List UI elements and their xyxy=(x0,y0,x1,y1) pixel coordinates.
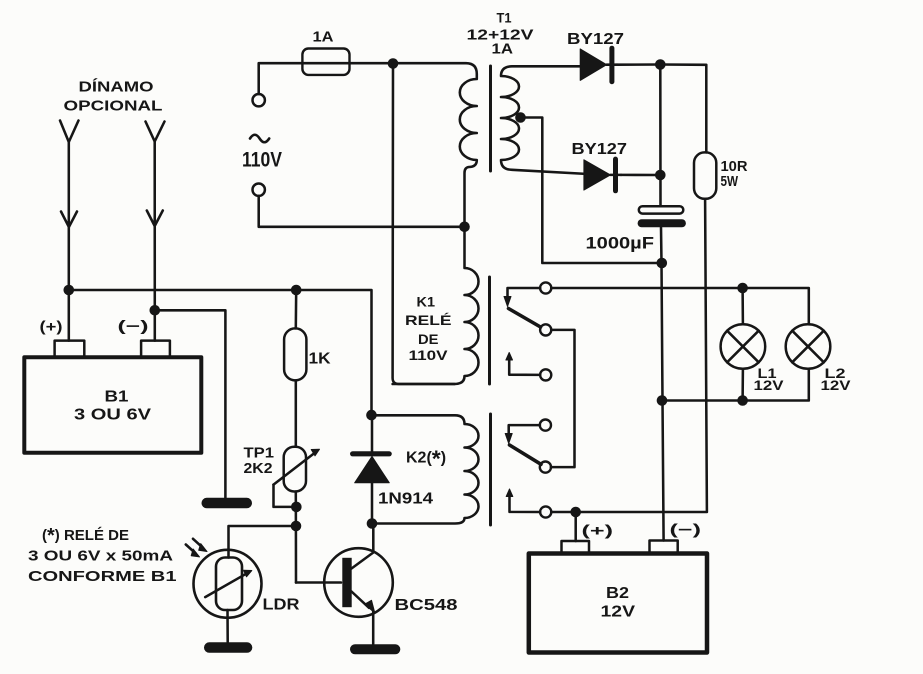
wire rectifier vertical xyxy=(659,65,662,207)
diode D2 BY127 xyxy=(584,160,611,190)
terminal 110V top xyxy=(253,94,265,106)
transistor base bar xyxy=(342,558,351,607)
battery B2 tab negative xyxy=(650,541,678,554)
svg-text:12V: 12V xyxy=(601,604,636,621)
terminal 110V bottom xyxy=(253,184,265,196)
capacitor 1000uF positive plate xyxy=(639,206,684,213)
trimpot TP1 2K2 body xyxy=(284,447,306,492)
relay K1 core xyxy=(488,277,491,384)
resistor 10R 5W xyxy=(694,152,716,198)
relay K1 coil xyxy=(393,227,479,384)
LDR body xyxy=(194,550,262,618)
svg-text:OPCIONAL: OPCIONAL xyxy=(64,98,163,115)
wire LDR to ground xyxy=(226,610,229,642)
transformer T1 core xyxy=(489,66,492,171)
relay K2 contact c5 xyxy=(540,462,551,473)
svg-text:3 OU 6V: 3 OU 6V xyxy=(74,407,151,424)
node collector / K2 bottom xyxy=(367,518,378,529)
transformer T1 primary winding xyxy=(393,63,477,227)
relay K2 core xyxy=(489,414,492,525)
svg-text:B1: B1 xyxy=(105,389,129,406)
relay K2 blade xyxy=(510,445,542,464)
wire contact c4 left with down arrow xyxy=(509,425,540,434)
svg-text:(*) RELÉ DE: (*) RELÉ DE xyxy=(42,525,129,547)
ground LDR xyxy=(204,642,252,653)
svg-text:DÍNAMO: DÍNAMO xyxy=(79,79,154,96)
ground emitter xyxy=(350,644,400,654)
wire c2 to c5 link xyxy=(551,330,575,467)
transistor collector xyxy=(352,524,374,569)
wire terminal-top to fuse xyxy=(259,63,303,94)
trimpot TP1 wiper arrow xyxy=(274,452,316,484)
svg-text:(−): (−) xyxy=(670,522,702,539)
arrow chevron on positive lead xyxy=(61,212,77,228)
trimpot TP1 wiper return xyxy=(274,485,291,507)
node fuse output xyxy=(388,58,399,69)
wire positive node to 10R xyxy=(660,65,706,153)
svg-text:(+): (+) xyxy=(40,319,63,336)
node primary-neutral-K1coil xyxy=(459,222,470,233)
arrow chevron on negative lead xyxy=(147,211,163,227)
wire D1 to positive node xyxy=(617,63,660,66)
capacitor 1000uF negative plate xyxy=(638,219,686,227)
wire L1 bottom lead xyxy=(741,369,744,401)
svg-text:RELÉ: RELÉ xyxy=(405,312,452,328)
svg-text:B2: B2 xyxy=(606,585,629,602)
node negative lead to ground branch xyxy=(150,305,161,316)
node rectifier positive xyxy=(655,59,666,70)
relay K1 blade xyxy=(509,309,541,328)
wire center tap return xyxy=(521,118,662,264)
wire negative lead to ground xyxy=(155,310,226,497)
relay K2 contact c6 xyxy=(540,506,551,517)
node L1 top xyxy=(737,283,748,294)
svg-text:TP1: TP1 xyxy=(244,445,275,462)
transformer T1 secondary winding xyxy=(501,66,586,174)
node capacitor negative xyxy=(657,258,668,269)
diode D1 BY127 xyxy=(580,49,606,81)
fuse F1 1A xyxy=(302,49,349,75)
wire D2 to filter node xyxy=(621,174,660,177)
wire contact c1 left with down arrow xyxy=(508,288,541,298)
svg-text:1000µF: 1000µF xyxy=(586,234,655,253)
svg-text:1K: 1K xyxy=(309,351,331,368)
dynamo lead negative xyxy=(146,122,165,142)
wire B2 positive lead xyxy=(574,512,577,541)
relay K1 contact NO xyxy=(540,369,551,380)
battery B2 body xyxy=(529,554,707,653)
battery B2 tab positive xyxy=(562,541,590,554)
svg-text:5W: 5W xyxy=(721,173,739,190)
transistor Q1 BC548 body xyxy=(324,548,393,617)
battery B1 body xyxy=(24,357,201,453)
svg-text:3 OU 6V x 50mA: 3 OU 6V x 50mA xyxy=(28,548,173,565)
node 1K branch xyxy=(291,285,302,296)
wire fuse to transformer primary xyxy=(350,62,394,65)
LDR light arrows xyxy=(186,545,196,554)
svg-text:1A: 1A xyxy=(492,41,514,58)
svg-text:2K2: 2K2 xyxy=(244,460,273,477)
svg-text:CONFORME B1: CONFORME B1 xyxy=(28,568,177,585)
wire lamp top line xyxy=(551,288,809,324)
relay K1 contact NC xyxy=(540,282,551,293)
wire lamp bottom line xyxy=(662,369,809,401)
node L1 bottom xyxy=(737,395,748,406)
up arrow K2 xyxy=(506,489,513,497)
node K2 top / 1N914 cathode node xyxy=(366,410,377,421)
resistor R1 1K xyxy=(284,328,306,380)
wire TP1 down to base node xyxy=(295,492,298,583)
wire L1 top lead xyxy=(741,288,744,324)
wire fuse output down to K1 coil xyxy=(393,64,455,385)
wire positive rail to K2/diode node xyxy=(69,290,372,415)
node D2 output xyxy=(655,170,666,181)
relay K2 coil xyxy=(372,415,479,523)
node center tap xyxy=(515,112,526,123)
wire rail to 1K xyxy=(295,290,298,328)
svg-text:1N914: 1N914 xyxy=(378,491,433,508)
node B2 positive xyxy=(570,507,581,518)
battery B1 terminal tab negative xyxy=(141,341,170,357)
svg-text:K1: K1 xyxy=(417,294,436,310)
svg-text:BY127: BY127 xyxy=(572,141,628,158)
diode D3 1N914 xyxy=(371,415,374,451)
svg-text:LDR: LDR xyxy=(263,597,300,614)
svg-text:BY127: BY127 xyxy=(567,31,624,48)
ground near B1 xyxy=(202,498,253,509)
relay K2 contact c4 xyxy=(540,420,551,431)
node LDR-base xyxy=(291,521,302,532)
node TP1 wiper join xyxy=(291,502,302,513)
wire 10R down to B2 positive line xyxy=(551,199,707,512)
wire 110V neutral to transformer/relay node xyxy=(259,196,460,227)
wire base xyxy=(296,581,341,584)
svg-text:110V: 110V xyxy=(409,347,449,363)
node dynamo positive xyxy=(64,285,75,296)
dynamo lead positive xyxy=(60,121,79,143)
up arrow K1 xyxy=(506,353,513,361)
LDR arrow xyxy=(205,573,248,597)
svg-text:12V: 12V xyxy=(754,377,785,393)
svg-text:(−): (−) xyxy=(118,318,149,335)
svg-text:12V: 12V xyxy=(821,377,852,393)
wire base node to LDR xyxy=(229,526,297,558)
lamp L2 xyxy=(786,324,831,369)
AC tilde symbol xyxy=(250,135,269,143)
svg-text:BC548: BC548 xyxy=(395,597,458,614)
wire 1K to TP1 xyxy=(295,380,298,446)
svg-text:1A: 1A xyxy=(313,29,334,46)
transistor emitter xyxy=(352,592,370,608)
battery B1 terminal tab positive xyxy=(55,341,85,357)
svg-text:DE: DE xyxy=(418,331,439,347)
lamp L1 xyxy=(721,324,766,369)
node lamp bottom left xyxy=(657,395,668,406)
svg-text:T1: T1 xyxy=(497,10,512,26)
relay K1 contact common xyxy=(540,324,551,335)
svg-text:110V: 110V xyxy=(242,149,282,172)
svg-text:(+): (+) xyxy=(582,523,614,540)
